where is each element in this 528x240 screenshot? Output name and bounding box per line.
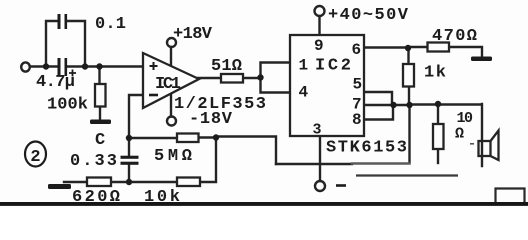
- resistor 5M: [177, 134, 199, 143]
- svg-text:+40~50V: +40~50V: [328, 6, 409, 25]
- svg-text:10: 10: [457, 110, 474, 127]
- terminal +18V: [167, 38, 176, 47]
- svg-text:8: 8: [352, 111, 362, 129]
- terminal -18V: [167, 117, 176, 126]
- IC2 STK6153 box: [290, 35, 364, 136]
- svg-text:9: 9: [314, 37, 324, 55]
- speaker polarity dash: [470, 143, 474, 145]
- svg-text:100k: 100k: [47, 96, 88, 115]
- junction node 5M right: [213, 134, 219, 140]
- wire 5M node to op-amp minus node: [199, 136, 217, 138]
- wire op-amp -18V stem: [170, 94, 172, 117]
- svg-text:STK6153: STK6153: [326, 139, 407, 158]
- junction node pin6/470R/1k: [405, 45, 411, 51]
- junction node 51R out: [257, 74, 263, 80]
- resistor 470R: [428, 43, 450, 52]
- wire op-amp minus node to 5M: [129, 137, 177, 139]
- bottom black bar: [0, 202, 528, 206]
- wire IC2 pin3 output stem: [319, 136, 321, 181]
- op-amp minus input mark: [149, 94, 158, 97]
- terminal +40-50V: [315, 6, 325, 16]
- wire 0.33 bottom stem: [128, 165, 130, 183]
- input terminal J1: [21, 62, 30, 71]
- wire IC2 pin7: [364, 104, 410, 106]
- wire feedback horizontal dark part: [276, 163, 352, 165]
- junction node input-loop left: [43, 63, 49, 69]
- wire 10k riser: [200, 138, 216, 183]
- circled figure number 2: [25, 142, 46, 168]
- wire op-amp inverting input: [129, 95, 143, 138]
- svg-text:4.7µ: 4.7µ: [36, 73, 75, 92]
- wire op-amp output to 51R: [198, 77, 221, 79]
- junction node 1k bottom: [406, 102, 412, 108]
- svg-text:3: 3: [313, 122, 322, 139]
- speaker LS1: [479, 131, 499, 161]
- svg-text:0.1: 0.1: [95, 15, 126, 34]
- junction node 10R tap: [435, 101, 441, 107]
- wire 0.33 top stem: [128, 138, 130, 156]
- svg-text:Ω: Ω: [455, 126, 464, 143]
- svg-text:IC1: IC1: [155, 75, 181, 94]
- wire IC2 pin9 supply stem: [318, 16, 320, 35]
- wire input to C 4.7u: [30, 65, 58, 67]
- capacitor 0.1 plates: [58, 14, 61, 29]
- junction node 100k tap: [96, 63, 102, 69]
- wire op-amp +18V stem: [170, 47, 172, 66]
- junction node C bottom: [126, 179, 132, 185]
- speaker terminal minus mark: [336, 184, 346, 187]
- svg-text:51Ω: 51Ω: [211, 57, 242, 76]
- svg-text:0.33: 0.33: [70, 152, 117, 171]
- svg-text:+18V: +18V: [173, 25, 213, 44]
- wire 10R bottom stem: [437, 149, 439, 163]
- resistor 1k: [403, 64, 414, 87]
- op-amp U1 triangle: [143, 53, 199, 108]
- svg-text:470Ω: 470Ω: [432, 27, 477, 46]
- wire feedback horizontal faint part: [352, 162, 410, 164]
- resistor 100k: [95, 84, 106, 107]
- wire output node to speaker: [410, 103, 481, 105]
- junction node inverting input / C: [126, 135, 132, 141]
- wire C 4.7u to op-amp + input: [67, 65, 143, 67]
- wire IC2 pin5: [364, 92, 392, 105]
- wire feedback riser: [216, 137, 276, 165]
- wire ground to 620R: [64, 181, 87, 183]
- capacitor 0.33 plates: [121, 156, 139, 159]
- wire 470R to ground: [449, 47, 482, 57]
- svg-text:1k: 1k: [424, 64, 446, 83]
- svg-text:IC2: IC2: [315, 57, 351, 76]
- capacitor 4.7u polarity plus: [69, 70, 76, 77]
- wire 1k top stem: [407, 48, 409, 64]
- wire 1k bottom stem: [408, 87, 410, 106]
- ground bar 620R: [48, 184, 71, 189]
- wire 0.1 loop right vertical: [67, 21, 86, 67]
- capacitor 4.7u plates: [58, 58, 61, 76]
- resistor 10R: [433, 124, 444, 149]
- wire 620R to 10k: [111, 181, 177, 183]
- resistor 51R: [221, 74, 243, 83]
- junction node pins 5-7-8: [390, 102, 396, 108]
- bottom-right partial box: [496, 189, 525, 203]
- svg-text:10k: 10k: [144, 188, 180, 207]
- svg-text:5MΩ: 5MΩ: [154, 147, 192, 166]
- ground bar 100k: [90, 120, 111, 125]
- stray horizontal line: [356, 174, 458, 176]
- wire 100k stem bottom: [99, 107, 101, 120]
- resistor 620R: [87, 178, 111, 187]
- wire feedback drop from output: [408, 105, 410, 163]
- wire 0.1 loop left vertical: [46, 21, 58, 67]
- wire IC2 pin8: [364, 105, 393, 120]
- junction node loop right: [82, 63, 88, 69]
- wire 100k stem top: [98, 67, 100, 85]
- wire 10R top stem: [437, 104, 439, 124]
- terminal speaker minus: [315, 181, 325, 191]
- wire IC2 pin6 to node: [364, 46, 408, 48]
- svg-text:5: 5: [353, 76, 363, 94]
- svg-text:C: C: [95, 131, 105, 150]
- svg-text:4: 4: [299, 84, 309, 102]
- svg-text:6: 6: [352, 41, 362, 59]
- wire node to IC2 pin1: [261, 63, 291, 78]
- op-amp plus input mark: [150, 62, 158, 70]
- svg-text:1: 1: [299, 57, 309, 75]
- svg-text:2: 2: [30, 148, 40, 167]
- wire node to 470R: [408, 46, 428, 48]
- ground bar 470R: [471, 57, 492, 62]
- svg-text:-18V: -18V: [189, 110, 233, 129]
- wire node to IC2 pin4: [261, 78, 291, 93]
- resistor 10k: [177, 178, 200, 187]
- wire 51R to node: [243, 77, 261, 79]
- wire speaker drop: [481, 104, 483, 166]
